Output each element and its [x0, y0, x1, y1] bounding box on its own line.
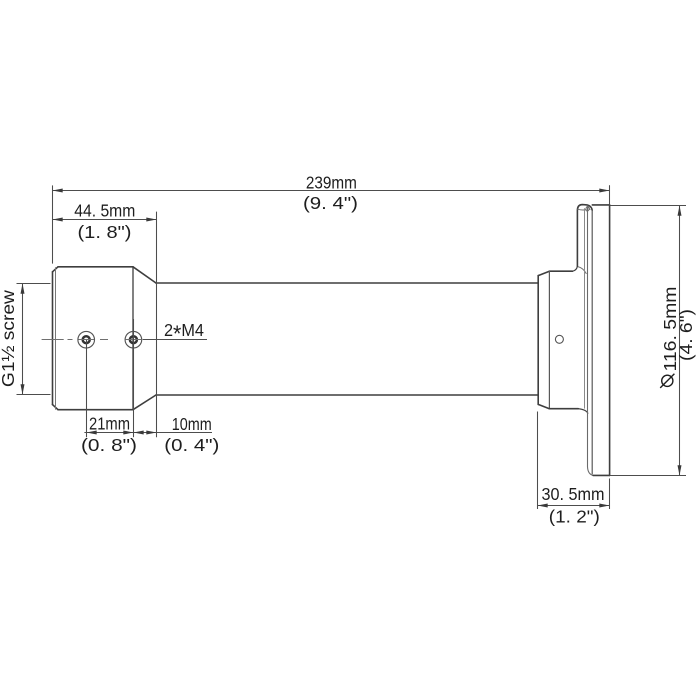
svg-text:(9. 4"): (9. 4"): [303, 193, 358, 213]
hub top chamfer: [538, 271, 549, 275]
dim 239mm line: [53, 190, 610, 192]
left cap bottom-right chamfer: [133, 395, 156, 410]
svg-text:239mm: 239mm: [306, 172, 357, 192]
dim 30.5 extension left: [537, 412, 539, 510]
tube top edge: [156, 282, 538, 284]
arrow 44.5 left: [53, 218, 63, 222]
svg-text:44. 5mm: 44. 5mm: [74, 200, 135, 220]
flange plate left edge: [591, 210, 593, 474]
label diameter symbol: [660, 374, 674, 388]
left cap bottom-left chamfer: [53, 405, 59, 410]
dim G tick bottom: [17, 394, 51, 396]
centerline through holes: [42, 339, 142, 341]
hub bottom step fillet: [578, 409, 588, 414]
lip inner edge line: [587, 205, 590, 209]
dim diameter extension top: [610, 205, 686, 207]
svg-text:(0. 4"): (0. 4"): [164, 435, 219, 455]
svg-text:(1. 8"): (1. 8"): [78, 222, 132, 242]
hub inner fillet arc: [578, 267, 586, 274]
left cap top-left chamfer: [53, 267, 59, 272]
dim diameter line: [679, 206, 681, 476]
flange plate bottom edge: [593, 474, 610, 476]
arrow G top: [21, 284, 25, 294]
dim 239mm extension right: [609, 185, 611, 205]
hub bottom edge: [549, 408, 578, 410]
arrow diameter top: [678, 206, 682, 216]
left cap bottom edge: [58, 409, 133, 411]
arrow 21 left: [87, 431, 97, 435]
svg-text:(1. 2"): (1. 2"): [549, 506, 600, 526]
left cap left tangent line: [55, 268, 57, 410]
arrow 30.5 right: [599, 504, 609, 508]
svg-text:21mm: 21mm: [89, 413, 130, 433]
tube bottom edge: [156, 394, 538, 396]
arrow 30.5 left: [538, 504, 548, 508]
arrow 10 left: [134, 431, 144, 435]
left cap top-right chamfer: [133, 267, 156, 283]
hole extension right: [133, 319, 135, 437]
lip top face contour: [578, 208, 587, 211]
flange plate top edge: [592, 204, 609, 206]
leader 2*M4: [143, 339, 207, 341]
svg-text:G1½ screw: G1½ screw: [0, 290, 18, 387]
left cap top edge: [58, 266, 133, 268]
screw hole left: [78, 331, 95, 348]
dim 44.5mm line: [53, 219, 157, 221]
hub small hole: [555, 335, 563, 343]
hub bottom chamfer: [538, 404, 549, 408]
flange tangent line B: [588, 208, 594, 476]
dim 30.5 line: [538, 505, 610, 507]
arrow 239 left: [53, 189, 63, 193]
dim 21/10 line: [84, 432, 212, 434]
dim diameter extension bottom: [610, 475, 686, 477]
dim 239mm extension left: [52, 185, 54, 263]
flange plate right edge: [609, 205, 611, 476]
arrow diameter bottom: [678, 465, 682, 475]
arrow 21 right: [123, 431, 133, 435]
arrow 239 right: [599, 189, 609, 193]
left cap left outer edge: [52, 272, 54, 405]
flange tangent line A: [584, 209, 586, 409]
hub top edge: [549, 270, 572, 272]
hub face tangent line: [548, 271, 550, 409]
svg-text:10mm: 10mm: [172, 414, 212, 434]
arrow 44.5 right: [146, 218, 156, 222]
svg-text:30. 5mm: 30. 5mm: [542, 484, 605, 504]
screw hole right: [125, 331, 142, 348]
arrow 10 right: [146, 431, 156, 435]
left cap front face line: [132, 267, 134, 410]
dim G line: [22, 284, 24, 395]
hub left edge: [537, 276, 539, 405]
dim G tick top: [17, 283, 51, 285]
hole extension left: [86, 340, 88, 437]
flange hook lip outline: [577, 205, 592, 267]
svg-text:(4. 6"): (4. 6"): [676, 309, 696, 361]
hub top fillet: [573, 266, 578, 271]
lip top face end oval: [585, 206, 589, 211]
arrow G bottom: [21, 384, 25, 394]
dim 44.5mm extension right: [156, 212, 158, 438]
svg-text:(0. 8"): (0. 8"): [81, 435, 137, 455]
dim 30.5 extension right: [609, 479, 611, 510]
